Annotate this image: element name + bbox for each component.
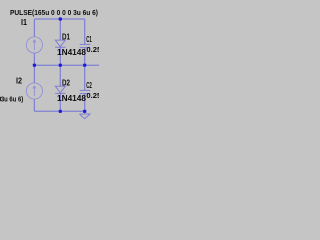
wire I2 bottom lead: [33, 99, 35, 111]
svg-text:I2: I2: [16, 77, 22, 86]
junction mid bus / I1-I2: [33, 64, 36, 67]
svg-text:3u 6u 6): 3u 6u 6): [1, 94, 24, 103]
background: [0, 0, 99, 120]
junction mid bus / D1-D2: [59, 64, 62, 67]
ground: [79, 111, 90, 118]
junction top rail / D1: [59, 17, 62, 20]
wire C2 top lead: [84, 65, 86, 90]
capacitor C1: [80, 44, 91, 47]
current source I2: [26, 83, 42, 99]
wire I2 top lead: [33, 65, 35, 83]
svg-text:C1: C1: [86, 35, 92, 44]
svg-text:0.25µ: 0.25µ: [86, 91, 99, 100]
svg-text:C2: C2: [86, 81, 92, 90]
junction mid bus / C1-C2: [83, 64, 86, 67]
wire bottom bus: [34, 110, 84, 112]
capacitor C2: [80, 90, 91, 93]
wire D2 top lead: [59, 65, 61, 86]
diode D2: [55, 86, 65, 93]
svg-text:D2: D2: [62, 78, 70, 87]
diode D1: [55, 40, 65, 47]
wire top rail: [34, 18, 84, 20]
svg-text:0.25µ: 0.25µ: [86, 45, 99, 54]
junction bottom bus / ground: [83, 110, 86, 113]
current source I1: [26, 37, 42, 53]
svg-text:D1: D1: [62, 32, 70, 41]
junction bottom bus / D2: [59, 110, 62, 113]
svg-text:1N4148: 1N4148: [57, 48, 87, 57]
wire D2 bottom lead: [59, 93, 61, 111]
wire I1 bottom lead: [33, 53, 35, 65]
wire I1 top lead: [33, 19, 35, 37]
wire C1 top lead: [84, 19, 86, 44]
wire middle bus: [34, 64, 99, 66]
svg-text:1N4148: 1N4148: [57, 94, 87, 103]
wire D1 top lead: [59, 19, 61, 40]
svg-text:I1: I1: [21, 18, 27, 27]
wire C2 bottom lead: [84, 94, 86, 112]
wire D1 bottom lead: [59, 47, 61, 65]
wire C1 bottom lead: [84, 48, 86, 66]
svg-text:PULSE(165u 0 0 0 0 3u 6u 6): PULSE(165u 0 0 0 0 3u 6u 6): [10, 10, 98, 17]
